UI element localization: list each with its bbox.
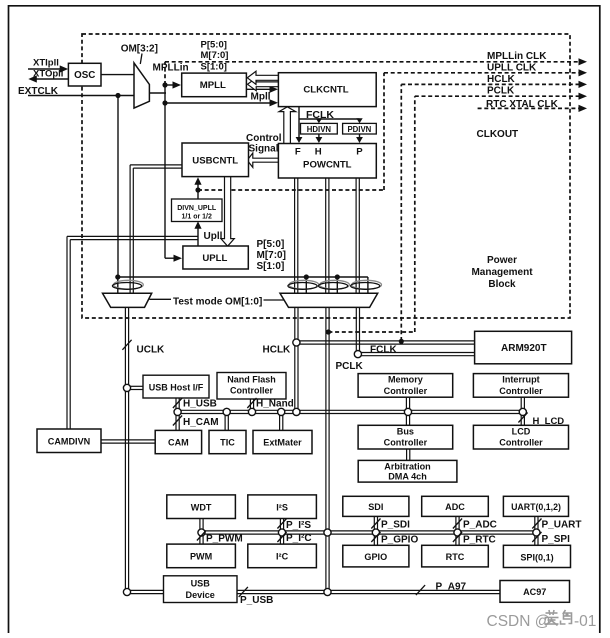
svg-text:Device: Device	[186, 590, 215, 600]
svg-text:Control: Control	[246, 133, 282, 144]
svg-text:Block: Block	[488, 279, 516, 290]
svg-text:H: H	[315, 147, 322, 158]
svg-text:MPLLin: MPLLin	[153, 63, 189, 74]
svg-text:Nand Flash: Nand Flash	[227, 375, 276, 385]
svg-text:SDI: SDI	[368, 502, 383, 512]
svg-text:RTC: RTC	[446, 552, 465, 562]
svg-text:CLKOUT: CLKOUT	[477, 129, 519, 140]
svg-text:P[5:0]: P[5:0]	[257, 239, 285, 250]
svg-text:Upll: Upll	[204, 231, 223, 242]
svg-text:TIC: TIC	[220, 438, 235, 448]
svg-text:P_A97: P_A97	[436, 581, 467, 592]
svg-text:H_CAM: H_CAM	[183, 417, 219, 428]
svg-text:DMA 4ch: DMA 4ch	[388, 472, 427, 482]
svg-text:OSC: OSC	[74, 70, 95, 81]
svg-text:Controller: Controller	[499, 438, 543, 448]
svg-text:UCLK: UCLK	[137, 345, 166, 356]
svg-text:UPLL CLK: UPLL CLK	[487, 62, 537, 73]
svg-text:PWM: PWM	[190, 552, 212, 562]
svg-text:HDIVN: HDIVN	[307, 125, 332, 134]
svg-text:P_I²C: P_I²C	[286, 533, 312, 544]
svg-text:CAMDIVN: CAMDIVN	[48, 436, 90, 446]
svg-text:AC97: AC97	[523, 587, 546, 597]
svg-text:POWCNTL: POWCNTL	[303, 159, 352, 170]
svg-text:Mpll: Mpll	[251, 92, 271, 103]
svg-text:EXTCLK: EXTCLK	[18, 86, 59, 97]
svg-text:FCLK: FCLK	[370, 344, 397, 355]
svg-text:RTC XTAL CLK: RTC XTAL CLK	[486, 99, 559, 110]
svg-text:P_USB: P_USB	[240, 595, 273, 606]
svg-text:CSDN @: CSDN @	[487, 613, 551, 630]
svg-text:MPLL: MPLL	[200, 80, 226, 91]
svg-text:P_UART: P_UART	[542, 520, 582, 531]
svg-text:F: F	[295, 147, 301, 158]
svg-text:GPIO: GPIO	[364, 552, 387, 562]
svg-text:P_RTC: P_RTC	[463, 534, 496, 545]
svg-text:ExtMater: ExtMater	[263, 438, 302, 448]
svg-text:Test mode OM[1:0]: Test mode OM[1:0]	[173, 296, 262, 307]
svg-text:DIVN_UPLL: DIVN_UPLL	[177, 205, 217, 212]
svg-text:P_SDI: P_SDI	[381, 520, 410, 531]
svg-text:P_PWM: P_PWM	[206, 533, 243, 544]
svg-text:P[5:0]: P[5:0]	[201, 40, 227, 51]
svg-text:HCLK: HCLK	[487, 74, 516, 85]
svg-text:-01: -01	[574, 613, 596, 630]
svg-text:I²S: I²S	[276, 503, 288, 513]
svg-text:H_LCD: H_LCD	[533, 416, 565, 427]
svg-text:Arbitration: Arbitration	[384, 461, 430, 471]
svg-text:PCLK: PCLK	[487, 86, 515, 97]
svg-text:P_ADC: P_ADC	[463, 520, 497, 531]
svg-text:CAM: CAM	[168, 438, 189, 448]
svg-text:ADC: ADC	[445, 502, 465, 512]
svg-text:USB Host I/F: USB Host I/F	[149, 382, 204, 392]
svg-text:M[7:0]: M[7:0]	[201, 50, 229, 61]
svg-text:P: P	[356, 147, 363, 158]
svg-text:Controller: Controller	[499, 386, 543, 396]
svg-text:MPLLin CLK: MPLLin CLK	[487, 51, 547, 62]
svg-text:Interrupt: Interrupt	[502, 375, 539, 385]
svg-text:H_USB: H_USB	[183, 398, 217, 409]
svg-text:OM[3:2]: OM[3:2]	[121, 44, 158, 55]
svg-text:Controller: Controller	[384, 386, 428, 396]
svg-text:Management: Management	[471, 267, 533, 278]
svg-text:PCLK: PCLK	[336, 361, 364, 372]
svg-text:USBCNTL: USBCNTL	[192, 155, 238, 166]
svg-text:Controller: Controller	[230, 386, 273, 396]
svg-text:CLKCNTL: CLKCNTL	[303, 85, 348, 96]
svg-text:HCLK: HCLK	[263, 345, 292, 356]
svg-text:Power: Power	[487, 255, 517, 266]
svg-text:SPI(0,1): SPI(0,1)	[520, 553, 553, 563]
svg-text:Controller: Controller	[384, 438, 428, 448]
svg-text:Signal: Signal	[249, 144, 279, 155]
svg-text:XTIpll: XTIpll	[33, 58, 59, 69]
svg-text:Memory: Memory	[388, 375, 424, 385]
svg-text:I²C: I²C	[276, 552, 289, 562]
svg-text:P_I²S: P_I²S	[286, 520, 311, 531]
svg-text:USB: USB	[191, 579, 211, 589]
svg-text:P_GPIO: P_GPIO	[381, 534, 418, 545]
svg-text:Bus: Bus	[397, 426, 414, 436]
svg-text:M[7:0]: M[7:0]	[257, 250, 286, 261]
svg-text:XTOpll: XTOpll	[33, 69, 63, 80]
svg-text:UPLL: UPLL	[202, 253, 227, 264]
svg-text:LCD: LCD	[512, 426, 531, 436]
svg-text:1/1 or 1/2: 1/1 or 1/2	[182, 214, 212, 221]
svg-text:S[1:0]: S[1:0]	[257, 261, 285, 272]
svg-text:P_SPI: P_SPI	[542, 534, 571, 545]
svg-text:H_Nand: H_Nand	[256, 398, 294, 409]
svg-text:PDIVN: PDIVN	[347, 125, 371, 134]
svg-text:ARM920T: ARM920T	[501, 343, 547, 354]
svg-text:S[1:0]: S[1:0]	[201, 61, 227, 72]
svg-text:WDT: WDT	[191, 503, 212, 513]
svg-text:UART(0,1,2): UART(0,1,2)	[511, 502, 561, 512]
svg-text:FCLK: FCLK	[306, 109, 334, 121]
